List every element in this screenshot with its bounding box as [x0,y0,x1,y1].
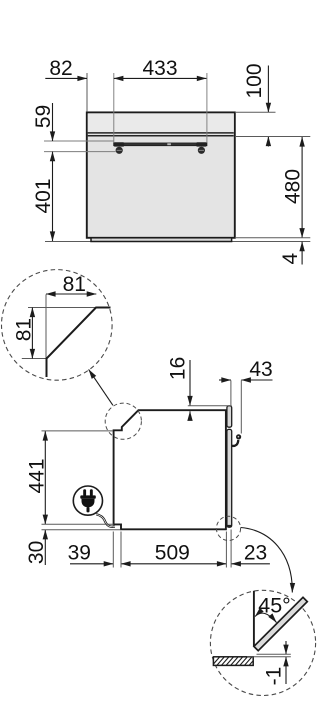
extension line x=87 above oven [86,73,88,111]
door front face line [253,591,255,647]
svg-text:509: 509 [155,542,190,565]
extension line y=358.5 [22,358,47,360]
dim 59 line [52,103,54,141]
extension line x=121 below [120,532,122,568]
left screw head [116,147,123,154]
dim 401 line [52,152,54,241]
dim 100 upper line [267,66,269,113]
power cord [96,514,115,526]
cabinet outline [114,410,226,529]
hook ball [236,434,241,439]
hook [232,440,239,446]
dim 23 arrow [231,563,270,565]
door strip upper segment [227,406,232,427]
svg-text:433: 433 [142,57,177,80]
extension line y=237.7 right [236,237,310,239]
dim 43 left arrow [219,379,231,381]
chamfer corner profile [47,308,111,378]
detail circle [2,270,113,381]
plug prong left [83,489,86,496]
svg-text:-1: -1 [262,667,285,686]
control panel band [88,113,234,132]
extension line x=226.4 below [225,532,227,568]
svg-text:45°: 45° [258,594,291,618]
dim 30 lower arrow [44,530,46,565]
extension line y=112.3 right [236,111,276,113]
svg-text:16: 16 [166,357,189,380]
dim 441 line [44,431,46,524]
corner detail dashed circle bottom right [216,516,240,540]
svg-text:59: 59 [32,105,55,128]
svg-text:23: 23 [244,542,267,565]
dim 39 line [70,563,113,565]
oven body [87,112,235,237]
svg-text:480: 480 [282,169,305,204]
dim 433 line [114,77,207,79]
extension line y=307.5 [28,307,96,309]
dim 4 lower arrow [301,242,303,265]
svg-text:401: 401 [32,178,55,213]
left screw clamp [114,142,124,146]
extension line x=231.1 below [230,530,232,568]
mounting rail [114,143,207,146]
extension line y=141 to rail [44,140,114,142]
svg-text:43: 43 [249,358,272,381]
dim 16 upper line [189,360,191,406]
dim -1 lower arrow [285,657,287,684]
extension line y=656.8 [247,656,291,658]
angle arc [255,613,277,622]
beveled door bottom bar [254,597,307,650]
plug stem [87,507,90,512]
door strip bottom cap [227,525,232,527]
extension line y=136.5 right [236,136,310,138]
dim 43 right arrow [241,379,272,381]
control panel divider line upper [88,132,234,134]
extension line y=524.2 [42,523,114,525]
rail center notch [167,143,171,145]
extension line y=654.2 [257,653,291,655]
extension line x=241.3 [240,380,242,433]
power socket circle [73,486,102,515]
dim 480 line [301,137,303,238]
extension line y=151.6 to screw [44,151,116,153]
right screw head [198,147,205,154]
leader arrow to detail circle [89,369,113,405]
plug crossbar [80,495,96,498]
extension line y=529.8 [42,529,121,531]
extension line x=230.9 [230,380,232,405]
svg-text:100: 100 [243,63,266,98]
svg-text:39: 39 [68,542,91,565]
extension line x=46 [45,294,47,358]
detail circle bottom [210,590,315,695]
dim -1 upper arrow [285,641,287,654]
dim 82 line [45,77,87,79]
extension line x=206.4 through panel [206,73,208,143]
dim 16 lower arrow [189,411,191,420]
svg-text:81: 81 [63,273,86,296]
plug prong right [90,489,93,496]
dim 509 line [121,563,227,565]
hatched shelf [213,657,253,666]
door strip lower segment [227,429,232,527]
control panel divider line lower [88,135,234,137]
extension line x=113.8 through panel [113,73,115,143]
leader curve to bottom detail circle [241,528,293,593]
svg-text:82: 82 [49,57,72,80]
plug body [82,499,95,508]
dim 100 lower arrow [267,137,269,147]
corner detail dashed circle [105,403,141,439]
svg-text:4: 4 [279,253,302,265]
right screw clamp [196,142,206,146]
plinth [91,238,232,242]
extension line y=430.9 [42,430,114,432]
dim 81 vertical line [31,308,33,359]
extension line y=241.5 (plinth bottom, full width) [45,241,310,243]
dim 81 horizontal line [46,293,96,295]
extension line y=405.8 door top [188,405,232,407]
extension line x=113.3 below [112,532,114,568]
